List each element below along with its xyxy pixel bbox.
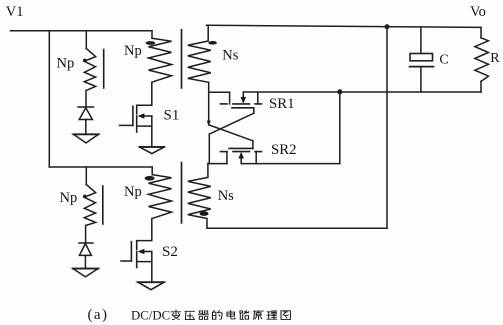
svg-text:S1: S1 <box>164 107 180 123</box>
wire capacitor top lead <box>420 27 422 53</box>
transformer T1 core <box>181 30 183 88</box>
S1 channel dashes <box>136 105 138 113</box>
S1 body arrow stub <box>144 115 152 117</box>
svg-text:S2: S2 <box>162 244 178 260</box>
SR2 body arrow <box>238 152 244 159</box>
transformer T1 secondary winding Ns <box>188 25 211 82</box>
S1 source stub <box>137 125 152 127</box>
S1 body arrow <box>138 113 145 118</box>
SR2 left (drain) lead <box>208 163 227 165</box>
winding Np3 phase dot <box>83 195 87 199</box>
transformer T2 core <box>181 163 183 223</box>
wire capacitor bottom lead <box>420 67 422 92</box>
SR2 right stub <box>255 152 257 164</box>
wire T1 primary bottom lead to S1 <box>137 82 152 105</box>
S2 body arrow stub <box>144 251 152 253</box>
capacitor C top plate (box) <box>410 54 433 61</box>
caption chinese glyph 原 <box>254 311 264 319</box>
wire cross-couple diagonal B (node X1 to SR2 gate) <box>209 125 253 141</box>
wire D1 to ground <box>85 120 87 135</box>
caption chinese glyph 电 <box>227 310 235 319</box>
svg-text:Np: Np <box>60 190 78 206</box>
svg-text:(a): (a) <box>88 307 109 323</box>
arrowhead at node X1 <box>207 121 211 127</box>
resistor R <box>475 38 489 82</box>
T1 secondary phase dot <box>208 41 217 45</box>
transformer T2 secondary winding Ns <box>188 164 211 229</box>
caption chinese glyph 压 <box>185 311 194 319</box>
winding Np1 core bar <box>103 50 105 89</box>
wire D2 to ground <box>84 255 86 268</box>
wire Ns1 bottom to SR network (node X1) <box>208 82 210 124</box>
junction dot (top rail / long vertical) <box>385 24 390 29</box>
SR1 left (drain) lead <box>209 91 230 93</box>
T2 primary phase dot <box>145 176 155 181</box>
S2 gate lead <box>121 260 131 262</box>
wire top-right output rail <box>207 25 482 27</box>
caption chinese glyph 的 <box>213 311 223 320</box>
SR2 body arrow stub <box>240 158 242 164</box>
SR1 gate bar <box>232 107 254 109</box>
svg-text:SR1: SR1 <box>269 96 295 112</box>
wire top-left input rail <box>11 30 153 32</box>
svg-text:Ns: Ns <box>218 188 234 204</box>
wire drop to winding Np1 <box>85 31 87 49</box>
diode D1 (cathode bar) <box>78 106 94 108</box>
SR2 channel dashes <box>221 151 228 153</box>
wire drop into T2 primary <box>151 167 153 175</box>
SR2 left stub <box>226 152 228 164</box>
wire Np1 to diode D1 <box>85 91 87 108</box>
caption chinese glyph 图 <box>281 311 290 320</box>
svg-text:V1: V1 <box>6 4 24 20</box>
svg-text:C: C <box>439 53 448 68</box>
svg-text:DC/DC: DC/DC <box>131 308 170 322</box>
wire drop to winding Np3 <box>85 167 87 185</box>
S2 gate bar <box>130 242 132 261</box>
SR1 left stub <box>229 92 231 104</box>
T2 secondary phase dot <box>200 211 209 216</box>
S1 gate lead <box>120 124 133 126</box>
winding Np1 phase dot <box>83 59 87 63</box>
caption chinese glyph 器 <box>199 311 209 319</box>
diode D2 (cathode bar) <box>79 242 93 244</box>
wire drop into T1 primary <box>151 31 153 39</box>
SR1 channel dashes <box>221 103 228 105</box>
wire node X2 vertical <box>208 134 210 164</box>
transformer T2 primary winding Np <box>149 175 172 219</box>
svg-text:SR2: SR2 <box>271 142 297 158</box>
S1 right vertical (source) <box>151 116 153 147</box>
wire output bottom rail <box>243 91 481 93</box>
wire long vertical (top rail to bottom jumper) <box>386 27 388 229</box>
SR1 gate drop <box>253 108 255 113</box>
T1 primary phase dot <box>146 41 156 45</box>
wire left vertical <box>48 31 50 167</box>
ground (under S2) <box>138 282 164 290</box>
wire resistor top lead <box>480 27 482 37</box>
S1 gate bar <box>132 106 134 125</box>
S2 source stub <box>137 261 152 263</box>
svg-text:Vo: Vo <box>470 4 486 20</box>
capacitor C bottom plate <box>410 66 434 68</box>
wire bottom jumper <box>207 227 387 229</box>
svg-text:Np: Np <box>57 56 75 72</box>
caption chinese glyph 路 <box>240 311 249 320</box>
svg-text:R: R <box>490 51 500 66</box>
SR2 gate bar <box>229 147 253 149</box>
wire middle rail <box>49 166 152 168</box>
junction dot (output rail / SR2 riser) <box>337 89 342 94</box>
winding Np3 (lower reset winding) <box>84 185 95 226</box>
wire resistor bottom lead <box>480 81 482 92</box>
transformer T1 primary winding Np <box>149 38 172 82</box>
winding Np1 (upper reset winding) <box>84 49 95 91</box>
S2 channel dashes <box>136 241 138 249</box>
SR1 body arrow <box>241 97 247 104</box>
SR1 right (source) stub <box>257 92 259 104</box>
ground (under D1) <box>74 134 99 143</box>
svg-text:Np: Np <box>124 43 142 59</box>
caption chinese glyph 理 <box>267 311 277 319</box>
caption chinese glyph 变 <box>171 310 180 320</box>
ground (under S1) <box>139 147 164 154</box>
SR1 body arrow stub <box>242 92 244 97</box>
diode D2 (triangle) <box>79 244 91 256</box>
wire Np3 to diode D2 <box>85 225 87 243</box>
diode D1 (triangle) <box>79 108 92 120</box>
ground (under D2) <box>73 269 98 277</box>
svg-text:Ns: Ns <box>222 47 238 63</box>
S2 right vertical (source) <box>151 252 153 283</box>
wire SR2 riser to output rail <box>339 92 341 164</box>
winding Np3 core bar <box>102 186 104 224</box>
svg-text:Np: Np <box>124 184 142 200</box>
wire T2 primary bottom lead to S2 <box>137 219 152 241</box>
wire cross-couple diagonal A (SR1 gate to node X2) <box>210 113 254 134</box>
SR2 right (source) lead <box>241 163 340 165</box>
SR2 gate drop <box>252 141 254 149</box>
S2 body arrow <box>138 249 145 254</box>
